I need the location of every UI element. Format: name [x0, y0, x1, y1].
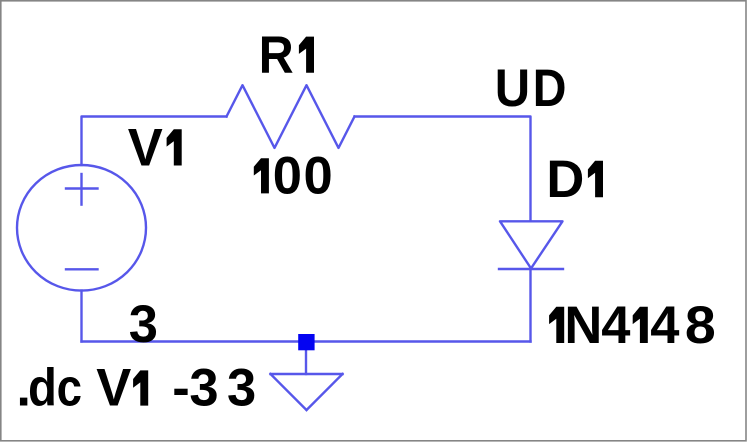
- wire: [529, 269, 531, 342]
- svg-text:8: 8: [685, 296, 716, 355]
- wire: [82, 117, 227, 166]
- svg-text:N4: N4: [564, 296, 630, 355]
- svg-text:0: 0: [273, 147, 302, 206]
- value 1N4148: [549, 296, 716, 355]
- label D1: [546, 150, 603, 209]
- node UD: [495, 59, 567, 118]
- svg-text:4: 4: [650, 296, 679, 355]
- wire: [80, 291, 82, 342]
- svg-text:R: R: [259, 26, 294, 85]
- svg-text:D: D: [546, 150, 584, 209]
- svg-text:c: c: [57, 359, 82, 418]
- wire: [355, 117, 531, 222]
- ground: [271, 374, 343, 410]
- voltage source V1: [17, 165, 146, 291]
- wire: [82, 340, 531, 342]
- svg-text:V: V: [96, 359, 131, 418]
- diode D1: [499, 221, 563, 269]
- resistor R1: [227, 85, 355, 148]
- svg-text:U: U: [495, 59, 530, 118]
- svg-text:0: 0: [304, 147, 333, 206]
- label R1: [259, 26, 314, 85]
- label V1: [128, 119, 182, 178]
- spice directive .dc V1 -3 3: [16, 359, 256, 418]
- value 100: [254, 147, 333, 206]
- node junction: [298, 334, 314, 350]
- svg-text:-: -: [172, 359, 189, 418]
- svg-text:d: d: [28, 359, 57, 418]
- svg-text:3: 3: [227, 359, 256, 418]
- svg-text:3: 3: [189, 359, 218, 418]
- svg-text:V: V: [128, 119, 163, 178]
- svg-text:D: D: [533, 59, 567, 118]
- wire: [305, 342, 307, 375]
- svg-text:3: 3: [129, 295, 158, 354]
